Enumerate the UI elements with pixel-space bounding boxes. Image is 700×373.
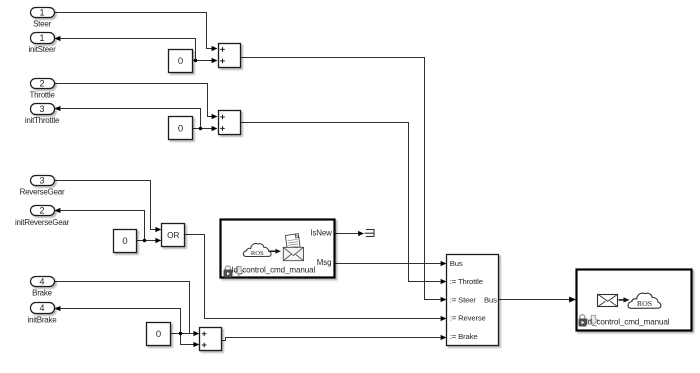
svg-text::= Throttle: := Throttle bbox=[450, 277, 483, 286]
wire ReverseGear inport to OR input 1 bbox=[55, 181, 157, 230]
sum S1 (Steer + init) bbox=[219, 44, 241, 68]
constant C4 value 0 bbox=[147, 323, 171, 346]
outport 3 initThrottle bbox=[25, 104, 60, 126]
svg-text:0: 0 bbox=[156, 329, 161, 340]
outport 2 initReverseGear bbox=[15, 206, 70, 227]
constant C3 value 0 bbox=[114, 230, 137, 253]
svg-text:ld_control_cmd_manual: ld_control_cmd_manual bbox=[586, 318, 670, 327]
svg-text:initThrottle: initThrottle bbox=[25, 116, 60, 125]
junction dot initThrottle branch bbox=[199, 127, 202, 130]
svg-text:initBrake: initBrake bbox=[28, 315, 58, 324]
wire Constant1 to Sum1 input 2 with branch to initSteer bbox=[61, 39, 213, 61]
svg-text:ld_control_cmd_manual: ld_control_cmd_manual bbox=[232, 266, 316, 275]
wire Constant2 to Sum2 input 2 with branch to initThrottle bbox=[61, 109, 213, 129]
svg-text:OR: OR bbox=[167, 230, 179, 240]
junction dot initReverseGear branch bbox=[143, 239, 146, 242]
wire Subscribe IsNew output to Terminator bbox=[335, 233, 359, 235]
svg-text:Msg: Msg bbox=[317, 258, 332, 267]
svg-text::= Reverse: := Reverse bbox=[450, 314, 486, 323]
wire Brake inport to Sum3 input 1 bbox=[55, 282, 195, 334]
svg-text:ROS: ROS bbox=[637, 299, 652, 308]
subscribe open envelope with letter icon bbox=[283, 234, 303, 261]
svg-text:1: 1 bbox=[39, 33, 44, 43]
svg-text:Bus: Bus bbox=[484, 295, 497, 304]
wire Subscribe Msg output to BusAssign Bus input bbox=[335, 263, 441, 265]
wire OR output to BusAssign Reverse input bbox=[185, 235, 441, 319]
svg-text:0: 0 bbox=[178, 123, 183, 134]
svg-text:Throttle: Throttle bbox=[29, 91, 55, 100]
svg-text:3: 3 bbox=[39, 176, 44, 186]
subscribe lock badge bbox=[224, 266, 233, 278]
terminator (IsNew) bbox=[365, 229, 375, 237]
wire Sum3 output to BusAssign Brake input bbox=[222, 338, 441, 341]
svg-text:ROS: ROS bbox=[251, 250, 264, 257]
junction dot initBrake branch bbox=[179, 332, 182, 335]
wire Constant4 to Sum3 with branch to initBrake and input 2 bbox=[61, 309, 195, 345]
inport 1 Steer bbox=[31, 7, 55, 28]
subscribe cloud icon with ROS text bbox=[243, 244, 271, 257]
inport 4 Brake bbox=[31, 277, 55, 298]
svg-text:0: 0 bbox=[122, 236, 127, 247]
svg-text:ReverseGear: ReverseGear bbox=[20, 188, 65, 197]
junction dot initSteer branch bbox=[194, 59, 197, 62]
sum S3 (Brake + init) bbox=[200, 328, 222, 351]
svg-text::= Brake: := Brake bbox=[450, 332, 478, 341]
inport 3 ReverseGear bbox=[20, 176, 65, 197]
publish linked-library arrow badge bbox=[589, 315, 599, 324]
publish lock badge bbox=[579, 315, 587, 327]
svg-text:Brake: Brake bbox=[32, 289, 52, 298]
inport 2 Throttle bbox=[29, 79, 55, 100]
svg-text:initReverseGear: initReverseGear bbox=[15, 218, 70, 227]
wire Constant3 to OR input 2 with branch to initReverseGear bbox=[61, 211, 157, 241]
sum S2 (Throttle + init) bbox=[219, 111, 241, 135]
svg-text:0: 0 bbox=[178, 56, 183, 67]
publish closed envelope icon bbox=[598, 294, 619, 307]
outport 1 initSteer bbox=[28, 33, 56, 55]
outport 4 initBrake bbox=[28, 303, 58, 325]
svg-text:IsNew: IsNew bbox=[310, 229, 332, 238]
constant C2 value 0 bbox=[169, 117, 193, 140]
logic OR block bbox=[162, 224, 185, 247]
subscribe linked-library arrow badge bbox=[234, 267, 244, 276]
publish cloud icon with ROS text bbox=[628, 293, 661, 308]
svg-text:4: 4 bbox=[39, 277, 44, 287]
svg-text:2: 2 bbox=[39, 79, 44, 89]
svg-text:3: 3 bbox=[39, 104, 44, 114]
wire BusAssign Bus output to Publish block bbox=[499, 299, 571, 301]
ROS Subscribe subsystem block bbox=[221, 220, 335, 278]
svg-text:4: 4 bbox=[39, 303, 44, 313]
wire Throttle inport to Sum2 input 1 bbox=[55, 84, 213, 117]
wire Sum1 output to BusAssign Steer input bbox=[241, 58, 441, 300]
svg-text:initSteer: initSteer bbox=[28, 45, 56, 54]
svg-text:1: 1 bbox=[39, 7, 44, 17]
wire Sum2 output to BusAssign Throttle input bbox=[241, 123, 441, 282]
bus assignment block bbox=[447, 255, 499, 346]
svg-text:2: 2 bbox=[39, 206, 44, 216]
svg-text:Steer: Steer bbox=[33, 20, 51, 29]
wire Steer inport to Sum1 input 1 bbox=[55, 13, 213, 49]
svg-text:Bus: Bus bbox=[450, 259, 463, 268]
subscribe cloud-to-envelope arrow bbox=[270, 249, 282, 254]
publish envelope-to-cloud arrow bbox=[619, 297, 630, 302]
ROS Publish subsystem block bbox=[577, 270, 692, 331]
constant C1 value 0 bbox=[169, 50, 193, 73]
svg-text::= Steer: := Steer bbox=[450, 295, 477, 304]
